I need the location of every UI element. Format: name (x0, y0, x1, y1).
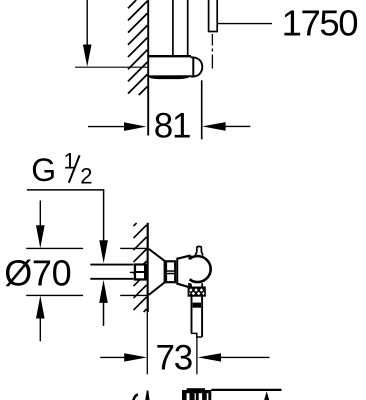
svg-text:73: 73 (156, 338, 193, 377)
svg-text:2: 2 (80, 163, 92, 188)
svg-text:81: 81 (154, 107, 191, 146)
svg-text:Ø70: Ø70 (4, 252, 71, 293)
svg-text:1750: 1750 (282, 3, 358, 44)
svg-text:G: G (31, 152, 56, 188)
